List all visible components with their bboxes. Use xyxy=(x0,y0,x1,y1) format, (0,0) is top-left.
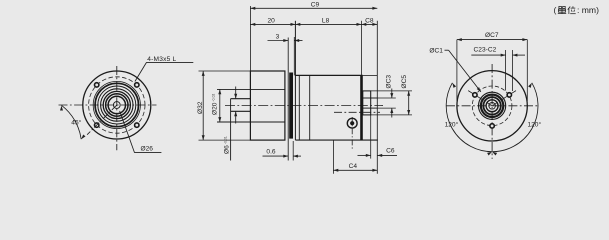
dimension diameter-20 line xyxy=(218,89,221,122)
left view gear ring r11.2 xyxy=(106,94,128,116)
dimension diameter-6 text xyxy=(224,136,231,154)
left view gear ring r16.2 xyxy=(101,89,133,121)
motor front cap line 2 xyxy=(309,75,311,140)
dimension 120 arc right xyxy=(491,82,538,155)
svg-text:Ø20: Ø20 xyxy=(212,102,219,115)
rear boss rectangle xyxy=(363,91,371,115)
dimension L8 line xyxy=(295,23,361,26)
svg-text:-0.02: -0.02 xyxy=(211,94,215,102)
flange spacer plate (filled) xyxy=(289,73,293,139)
svg-text:: mm): : mm) xyxy=(577,5,599,15)
right view diagonal centerline upper-right xyxy=(492,91,516,106)
dimension C23-C2 right line with arrow xyxy=(513,54,526,57)
dimension diameter-C5 text xyxy=(401,75,408,89)
gearbox internal bore bottom line xyxy=(217,121,285,123)
svg-text:20: 20 xyxy=(268,18,276,25)
left view label 4-M3x5L underline xyxy=(147,61,194,63)
svg-text:ØC3: ØC3 xyxy=(386,75,393,89)
dimension diameter-C7 extension left xyxy=(456,40,458,101)
left view bolt hole top-right xyxy=(135,83,139,87)
right view outer body circle xyxy=(457,71,527,141)
dimension C4 line xyxy=(333,169,377,172)
right view screw pitch circle (dashed) xyxy=(472,86,512,126)
left view gear ring r19 xyxy=(98,86,136,124)
motor top edge extension to rear shaft end xyxy=(363,74,378,76)
left view gear ring r23.6 xyxy=(93,81,140,128)
right view shaft circle r3.3 xyxy=(489,103,496,110)
connector vertical centerline xyxy=(351,117,353,150)
svg-text:C23-C2: C23-C2 xyxy=(474,47,497,54)
long extension line at rear shaft end xyxy=(376,21,378,174)
dimension C8 line xyxy=(361,23,377,26)
dimension diameter-6 lower arrow segment xyxy=(234,111,237,123)
output shaft top edge xyxy=(231,98,251,100)
left view bolt hole bottom-right xyxy=(135,123,139,127)
left view label diameter-26 underline xyxy=(135,152,162,154)
extension line gearbox top (diameter-32) xyxy=(199,70,251,72)
extension line shaft top xyxy=(377,97,396,99)
extension line boss top xyxy=(371,90,412,92)
svg-text:L8: L8 xyxy=(322,18,330,25)
svg-text:(: ( xyxy=(554,5,557,15)
left view label 4-M3x5L leader xyxy=(135,62,147,81)
dimension 3 right arrow segment xyxy=(294,39,302,42)
left view 45-degree dimension arc xyxy=(62,105,82,139)
gearbox internal bore top line xyxy=(217,88,285,90)
svg-text:3: 3 xyxy=(276,34,280,41)
connector center screw xyxy=(350,121,354,125)
rear shaft bottom edge xyxy=(363,107,378,109)
motor body bottom edge (extends to rear shaft extension) xyxy=(295,139,377,141)
svg-text:C8: C8 xyxy=(365,18,374,25)
left view bolt circle (dashed, Ø26) xyxy=(89,77,145,133)
dimension 3 right extension line xyxy=(293,37,295,75)
right view boss ring r8.7 xyxy=(483,97,500,114)
middle view main centerline xyxy=(225,105,383,107)
right view horizontal centerline xyxy=(446,105,539,107)
rear boss right edge extension down xyxy=(370,115,372,159)
dimension diameter-32 text xyxy=(197,101,204,114)
svg-text:Ø6: Ø6 xyxy=(224,145,231,154)
dimension C4 extension line left xyxy=(332,140,334,174)
left view bolt hole bottom-left xyxy=(95,123,99,127)
dimension diameter-6 upper arrow segment xyxy=(234,87,237,99)
dimension diameter-C5 line xyxy=(407,91,410,115)
dimension diameter-20 text xyxy=(211,94,218,115)
svg-text:C4: C4 xyxy=(349,163,358,170)
extension line shaft bottom xyxy=(377,107,396,109)
gearbox body rectangle xyxy=(250,71,285,140)
dimension C9 line xyxy=(250,7,377,10)
dimension C6 right arrow segment xyxy=(377,154,397,157)
dimension diameter-32 line xyxy=(202,71,205,140)
svg-text:ØC5: ØC5 xyxy=(401,75,408,89)
output shaft end + extension line down xyxy=(230,99,232,161)
motor body top edge xyxy=(295,74,362,76)
connector circle xyxy=(347,118,357,128)
right view boss ring r11.2 xyxy=(481,95,503,117)
svg-text:Ø26: Ø26 xyxy=(141,145,154,152)
extension line left face up (C9/20) xyxy=(249,6,251,71)
dimension 20 line xyxy=(250,23,295,26)
svg-text:Ø32: Ø32 xyxy=(197,101,204,114)
right view screw hole upper-left xyxy=(473,93,477,97)
extension line rear face up (L8/C8) xyxy=(360,21,362,76)
dimension diameter-C3 upper arrow segment xyxy=(390,89,393,99)
label diameter-C1 tick xyxy=(445,49,449,51)
left view gear ring r21.8 (pilot) xyxy=(95,83,138,126)
left view gear ring r13.6 xyxy=(103,91,130,118)
svg-text:4-M3x5 L: 4-M3x5 L xyxy=(147,56,176,63)
right view screw hole upper-right xyxy=(507,93,511,97)
svg-text:C6: C6 xyxy=(386,147,395,154)
dimension C6 left arrow segment xyxy=(358,154,371,157)
svg-text:C9: C9 xyxy=(311,2,320,9)
motor front cap line 1 xyxy=(298,75,300,140)
svg-text:ØC1: ØC1 xyxy=(429,48,443,55)
dimension diameter-C3 lower arrow segment xyxy=(390,108,393,117)
right view vertical centerline xyxy=(491,64,493,159)
gearbox rear thin edge / extension xyxy=(287,38,289,161)
units note: (unit : mm) with CJK glyphs drawn as strokes xyxy=(554,5,600,15)
motor front face line + extension xyxy=(294,21,296,140)
middle view secondary centerline xyxy=(334,111,380,113)
extension line boss bottom xyxy=(371,114,412,116)
dimension 120 arc left xyxy=(446,82,493,155)
spacer right extension line down xyxy=(292,141,294,161)
left view gear ring r8.7 xyxy=(108,96,125,113)
left view vertical centerline xyxy=(116,66,118,150)
right view screw hole bottom xyxy=(490,124,494,128)
dimension C23-C2 left line with arrow xyxy=(471,54,505,57)
left view 45-degree arc arrow bottom xyxy=(80,134,85,140)
dimension 3 left arrow segment xyxy=(268,39,289,42)
label diameter-C1 leader xyxy=(449,50,482,93)
svg-text:0.6: 0.6 xyxy=(266,148,275,155)
svg-text:45°: 45° xyxy=(71,119,81,127)
dimension diameter-C3 text xyxy=(386,75,393,89)
left view 45-degree diagonal centerline xyxy=(87,105,117,135)
output shaft bottom edge xyxy=(231,110,251,112)
dimension diameter-C7 line xyxy=(457,38,527,41)
dimension C23-C2 extension line left xyxy=(505,50,507,91)
svg-text:120°: 120° xyxy=(445,120,459,128)
left view outer flange circle xyxy=(83,71,151,139)
dimension diameter-C7 extension right xyxy=(526,40,528,101)
left view bolt hole top-left xyxy=(95,83,99,87)
left view shaft circle xyxy=(113,102,120,109)
left view 45-degree arc arrow top xyxy=(60,106,63,111)
rear shaft top edge xyxy=(363,97,378,99)
right view diagonal centerline upper-left xyxy=(468,91,492,106)
svg-text:120°: 120° xyxy=(527,120,541,128)
left view horizontal centerline xyxy=(59,104,157,106)
dimension 0.6 left arrow segment xyxy=(263,155,289,158)
svg-text:ØC7: ØC7 xyxy=(485,32,499,39)
extension line gearbox bottom (diameter-32) xyxy=(199,139,251,141)
dimension C23-C2 extension line right xyxy=(512,50,514,91)
left view label diameter-26 leader xyxy=(120,111,135,153)
motor rear face (filled) xyxy=(360,75,363,140)
right view boss ring r6 xyxy=(486,100,498,112)
right view boss ring r13.6 xyxy=(479,92,506,119)
dimension 0.6 right arrow segment xyxy=(293,155,301,158)
